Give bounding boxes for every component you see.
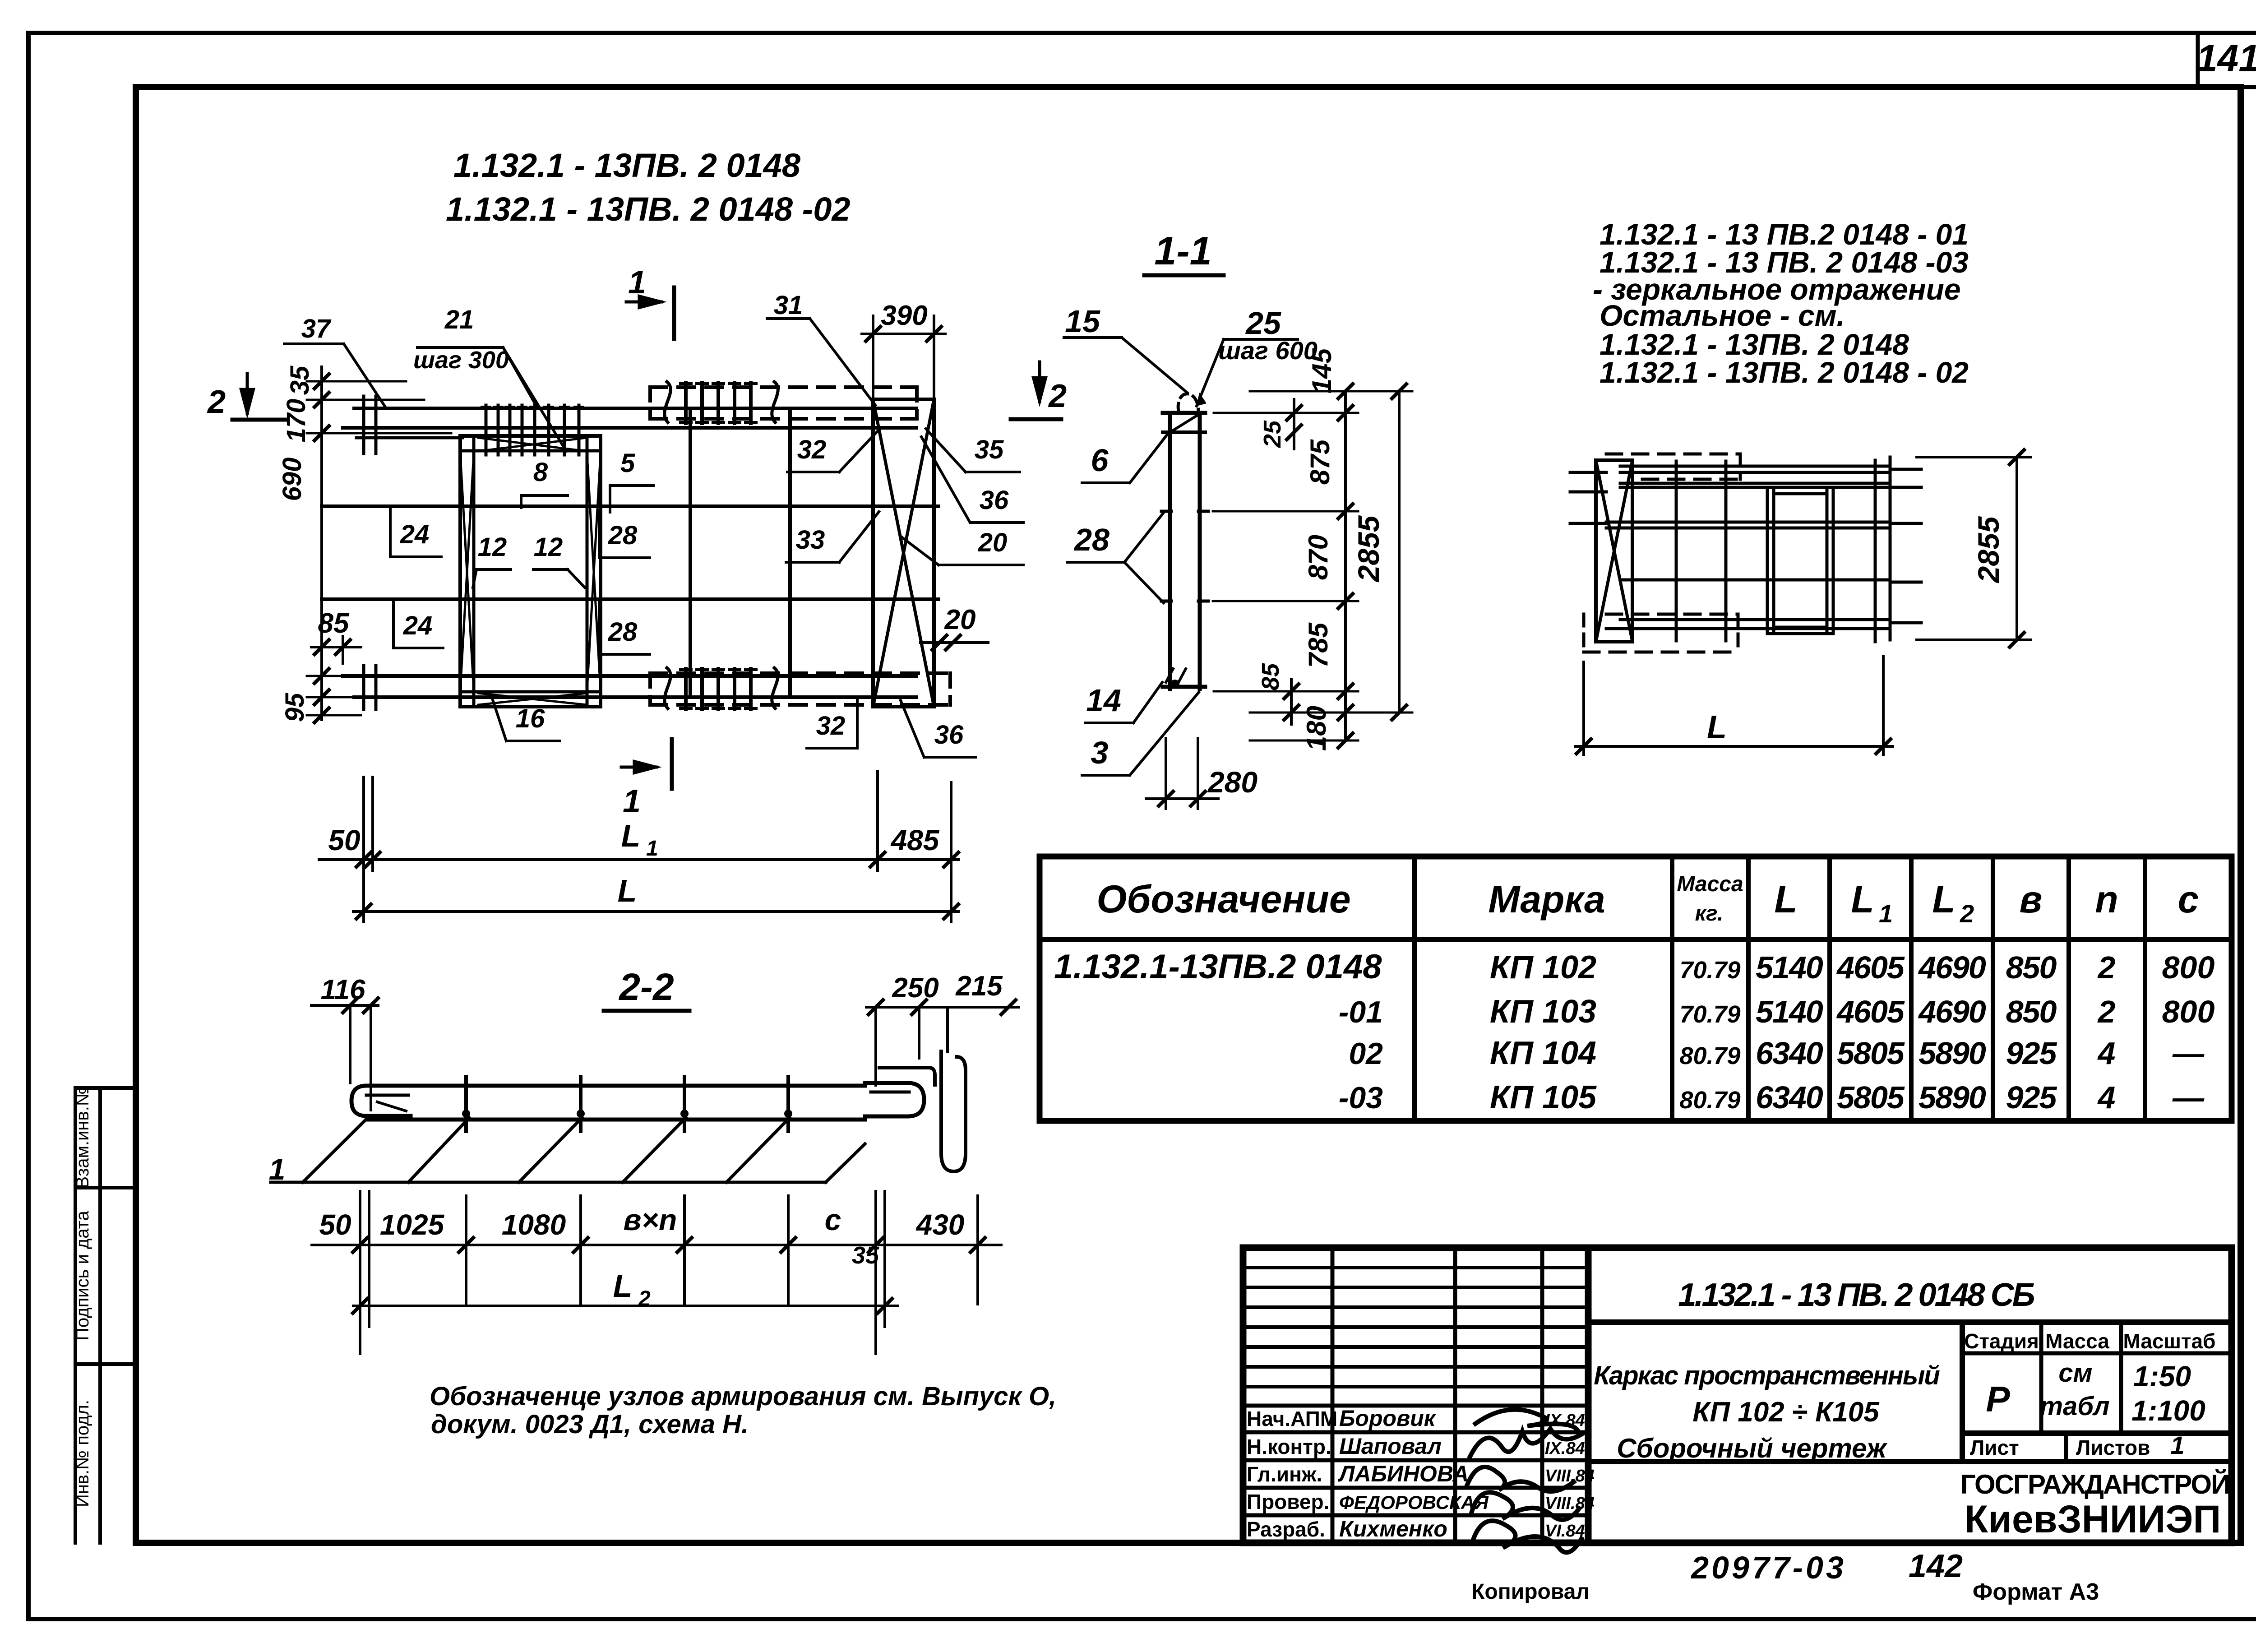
svg-text:1: 1 [1879, 899, 1893, 928]
svg-text:5890: 5890 [1919, 1036, 1986, 1071]
svg-text:1: 1 [646, 837, 658, 861]
svg-text:6340: 6340 [1756, 1036, 1823, 1071]
svg-text:Взам.инв.№: Взам.инв.№ [73, 1087, 92, 1189]
svg-text:1:100: 1:100 [2131, 1394, 2205, 1427]
svg-text:Формат А3: Формат А3 [1973, 1579, 2099, 1605]
svg-text:L: L [613, 1268, 633, 1304]
svg-text:Масштаб: Масштаб [2123, 1329, 2216, 1353]
svg-text:2: 2 [1048, 378, 1067, 414]
svg-text:L: L [1932, 878, 1955, 921]
svg-text:141: 141 [2196, 37, 2256, 79]
svg-text:28: 28 [608, 617, 638, 647]
svg-text:1: 1 [2170, 1431, 2184, 1459]
svg-text:в: в [2020, 878, 2043, 921]
svg-text:ГОСГРАЖДАНСТРОЙ: ГОСГРАЖДАНСТРОЙ [1960, 1469, 2229, 1499]
svg-text:Стадия: Стадия [1964, 1329, 2039, 1353]
svg-text:3: 3 [1091, 735, 1109, 770]
svg-text:1025: 1025 [380, 1208, 445, 1241]
svg-text:6340: 6340 [1756, 1080, 1823, 1115]
svg-text:КП 102 ÷ К105: КП 102 ÷ К105 [1692, 1397, 1880, 1428]
svg-text:КП 105: КП 105 [1490, 1079, 1597, 1115]
svg-text:1: 1 [628, 264, 646, 301]
svg-text:кг.: кг. [1695, 902, 1724, 925]
svg-text:116: 116 [321, 974, 365, 1005]
svg-text:—: — [2172, 1080, 2205, 1115]
svg-text:Подпись и дата: Подпись и дата [73, 1210, 92, 1340]
svg-text:37: 37 [301, 314, 332, 343]
svg-text:с: с [825, 1203, 841, 1236]
svg-text:215: 215 [955, 971, 1003, 1002]
svg-text:2: 2 [1960, 899, 1974, 928]
svg-text:12: 12 [534, 532, 563, 562]
svg-text:850: 850 [2006, 994, 2057, 1029]
svg-text:1080: 1080 [502, 1208, 566, 1241]
svg-text:95: 95 [280, 693, 310, 722]
svg-text:800: 800 [2162, 994, 2215, 1029]
svg-text:ФЕДОРОВСКАЯ: ФЕДОРОВСКАЯ [1339, 1492, 1489, 1513]
svg-text:L: L [618, 873, 637, 908]
svg-text:2: 2 [207, 384, 226, 420]
svg-text:5140: 5140 [1756, 994, 1823, 1029]
svg-text:142: 142 [1909, 1548, 1963, 1584]
svg-text:4605: 4605 [1836, 994, 1905, 1029]
svg-text:70.79: 70.79 [1679, 957, 1740, 984]
svg-text:4690: 4690 [1918, 950, 1986, 985]
svg-text:32: 32 [797, 435, 827, 464]
svg-text:табл: табл [2039, 1392, 2109, 1421]
svg-text:см: см [2058, 1358, 2092, 1388]
svg-text:24: 24 [403, 611, 433, 640]
svg-text:4: 4 [2097, 1080, 2116, 1115]
svg-text:с: с [2178, 878, 2199, 921]
svg-text:4605: 4605 [1836, 950, 1905, 985]
svg-text:785: 785 [1303, 622, 1333, 668]
svg-text:5805: 5805 [1837, 1080, 1905, 1115]
svg-text:5: 5 [620, 449, 635, 478]
svg-text:докум. 0023 Д1, схема Н.: докум. 0023 Д1, схема Н. [431, 1410, 749, 1439]
svg-text:690: 690 [277, 458, 307, 501]
svg-text:35: 35 [852, 1242, 879, 1269]
svg-text:870: 870 [1303, 535, 1333, 580]
svg-text:шаг 300: шаг 300 [413, 347, 509, 374]
svg-text:Разраб.: Разраб. [1247, 1518, 1325, 1541]
svg-text:1.132.1 - 13ПВ. 2 0148: 1.132.1 - 13ПВ. 2 0148 [453, 147, 801, 184]
svg-text:25: 25 [1245, 305, 1281, 341]
svg-text:4690: 4690 [1918, 994, 1986, 1029]
svg-text:КП 103: КП 103 [1490, 994, 1596, 1030]
svg-text:Обозначение: Обозначение [1096, 878, 1350, 921]
svg-text:1:50: 1:50 [2133, 1360, 2191, 1393]
svg-text:15: 15 [1065, 304, 1100, 339]
svg-text:Масса: Масса [2045, 1329, 2109, 1353]
svg-text:20: 20 [944, 604, 976, 635]
svg-text:шаг 600: шаг 600 [1218, 336, 1318, 365]
svg-text:L: L [621, 818, 641, 853]
svg-text:2-2: 2-2 [618, 966, 674, 1008]
svg-text:-03: -03 [1339, 1081, 1383, 1115]
svg-text:25: 25 [1259, 420, 1286, 448]
svg-text:430: 430 [915, 1208, 965, 1241]
svg-text:850: 850 [2006, 950, 2057, 985]
svg-text:925: 925 [2006, 1080, 2057, 1115]
svg-text:2: 2 [2097, 994, 2116, 1029]
svg-text:250: 250 [892, 972, 938, 1004]
svg-text:Р: Р [1986, 1379, 2010, 1419]
svg-text:VIII.84: VIII.84 [1545, 1494, 1595, 1513]
svg-text:800: 800 [2162, 950, 2215, 985]
svg-text:Листов: Листов [2076, 1436, 2150, 1459]
svg-text:1.132.1 - 13ПВ. 2 0148 -02: 1.132.1 - 13ПВ. 2 0148 -02 [446, 190, 851, 228]
svg-text:1.132.1 - 13ПВ. 2 0148 - 02: 1.132.1 - 13ПВ. 2 0148 - 02 [1600, 356, 1969, 389]
svg-text:20977-03: 20977-03 [1690, 1550, 1846, 1585]
svg-text:1.132.1 - 13 ПВ. 2 0148 СБ: 1.132.1 - 13 ПВ. 2 0148 СБ [1678, 1277, 2034, 1313]
svg-text:Сборочный чертеж: Сборочный чертеж [1617, 1433, 1887, 1463]
svg-text:1-1: 1-1 [1154, 228, 1211, 273]
svg-text:8: 8 [533, 458, 548, 487]
svg-text:Кихменко: Кихменко [1339, 1516, 1447, 1541]
svg-text:2855: 2855 [1352, 515, 1385, 583]
svg-text:180: 180 [1301, 706, 1331, 751]
svg-text:2: 2 [2097, 950, 2116, 985]
svg-text:28: 28 [608, 521, 638, 550]
svg-text:-01: -01 [1339, 995, 1383, 1029]
svg-text:Лист: Лист [1970, 1436, 2019, 1459]
svg-text:32: 32 [816, 711, 846, 740]
svg-text:28: 28 [1073, 522, 1110, 557]
svg-text:Н.контр.: Н.контр. [1247, 1435, 1331, 1458]
svg-text:Гл.инж.: Гл.инж. [1247, 1462, 1322, 1486]
svg-text:80.79: 80.79 [1679, 1087, 1740, 1114]
svg-text:4: 4 [2097, 1036, 2116, 1071]
svg-text:Копировал: Копировал [1471, 1580, 1590, 1604]
svg-text:85: 85 [1257, 663, 1284, 690]
svg-text:КП 102: КП 102 [1490, 949, 1596, 986]
svg-text:16: 16 [516, 704, 545, 733]
svg-text:Шаповал: Шаповал [1339, 1434, 1442, 1459]
svg-text:925: 925 [2006, 1036, 2057, 1071]
svg-text:21: 21 [444, 305, 474, 334]
svg-text:390: 390 [881, 300, 927, 331]
svg-text:L: L [1851, 878, 1874, 921]
svg-text:50: 50 [319, 1208, 351, 1241]
svg-text:Нач.АПМ: Нач.АПМ [1247, 1407, 1337, 1430]
svg-text:20: 20 [978, 528, 1008, 557]
svg-text:Остальное - см.: Остальное - см. [1600, 299, 1845, 332]
svg-text:36: 36 [934, 720, 964, 750]
svg-text:ЛАБИНОВА: ЛАБИНОВА [1338, 1461, 1469, 1486]
svg-text:1: 1 [623, 783, 641, 819]
svg-text:80.79: 80.79 [1679, 1042, 1740, 1069]
svg-text:85: 85 [318, 608, 350, 639]
svg-text:Марка: Марка [1488, 878, 1605, 921]
svg-text:14: 14 [1086, 683, 1121, 718]
svg-text:24: 24 [400, 520, 430, 549]
svg-text:5890: 5890 [1919, 1080, 1986, 1115]
svg-text:02: 02 [1349, 1037, 1383, 1071]
svg-text:—: — [2172, 1036, 2205, 1071]
svg-text:145: 145 [1307, 347, 1337, 393]
svg-text:1.132.1-13ПВ.2 0148: 1.132.1-13ПВ.2 0148 [1054, 948, 1382, 986]
svg-text:в×n: в×n [624, 1203, 677, 1236]
svg-text:5140: 5140 [1756, 950, 1823, 985]
svg-text:280: 280 [1207, 765, 1257, 799]
svg-text:Каркас пространственный: Каркас пространственный [1594, 1361, 1940, 1390]
svg-text:1: 1 [269, 1152, 286, 1186]
svg-text:L: L [1774, 878, 1797, 921]
svg-text:L: L [1707, 709, 1727, 745]
svg-text:Инв.№ подл.: Инв.№ подл. [73, 1400, 92, 1507]
svg-text:485: 485 [890, 824, 940, 856]
svg-text:35: 35 [285, 366, 314, 395]
svg-text:36: 36 [980, 486, 1009, 515]
svg-text:875: 875 [1305, 439, 1335, 485]
svg-text:КП 104: КП 104 [1490, 1035, 1596, 1071]
svg-text:n: n [2095, 878, 2118, 921]
svg-text:31: 31 [774, 291, 803, 320]
svg-text:2: 2 [638, 1287, 651, 1311]
svg-text:70.79: 70.79 [1679, 1001, 1740, 1028]
svg-text:2855: 2855 [1972, 516, 2005, 583]
svg-text:6: 6 [1091, 443, 1109, 478]
svg-text:Боровик: Боровик [1339, 1406, 1437, 1431]
svg-text:Масса: Масса [1677, 872, 1743, 896]
svg-text:35: 35 [975, 435, 1004, 464]
svg-text:КиевЗНИИЭП: КиевЗНИИЭП [1965, 1498, 2221, 1541]
svg-text:Обозначенце узлов армировани: Обозначенце узлов армирования см. Выпуск… [430, 1382, 1056, 1411]
svg-text:12: 12 [478, 532, 507, 562]
svg-text:33: 33 [796, 525, 825, 555]
svg-text:5805: 5805 [1837, 1036, 1905, 1071]
svg-text:VI.84: VI.84 [1545, 1522, 1585, 1541]
svg-text:50: 50 [328, 824, 360, 856]
svg-text:Провер.: Провер. [1247, 1490, 1329, 1513]
svg-text:IX.84: IX.84 [1545, 1439, 1585, 1458]
